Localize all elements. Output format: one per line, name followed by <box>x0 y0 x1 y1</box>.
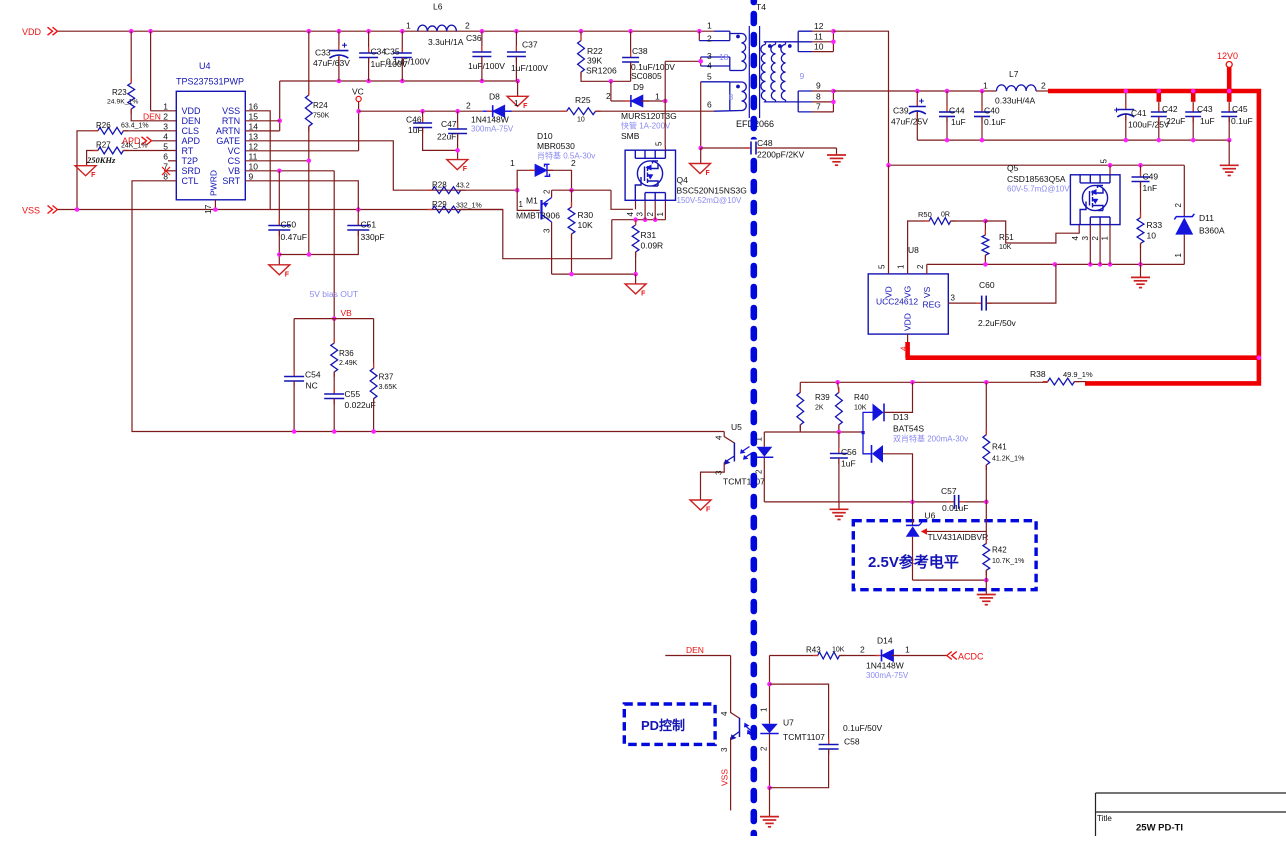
svg-text:8: 8 <box>816 92 821 102</box>
svg-text:VS: VS <box>922 286 932 298</box>
svg-text:C60: C60 <box>979 280 995 290</box>
junction 12V bus <box>1257 355 1262 360</box>
svg-text:C56: C56 <box>841 447 857 457</box>
ground earth (R33) <box>1131 276 1150 278</box>
junction C39 <box>915 89 920 94</box>
svg-text:10: 10 <box>249 162 259 172</box>
svg-text:3: 3 <box>707 51 712 61</box>
svg-text:VSS: VSS <box>222 106 240 116</box>
svg-text:4: 4 <box>163 132 168 142</box>
ground F (R31) <box>625 284 646 294</box>
wire SR source rail <box>927 263 1185 265</box>
junction VDD rail <box>129 29 134 34</box>
svg-text:C44: C44 <box>949 106 965 116</box>
junction R42 bottom <box>984 578 989 583</box>
svg-text:2: 2 <box>707 34 712 44</box>
wire Q5 pin5 stub <box>1109 165 1111 175</box>
secondary bracket pins 9/8/7 <box>798 91 812 112</box>
svg-text:UCC24612: UCC24612 <box>876 297 918 307</box>
junction Q5 pin5 <box>1108 163 1113 168</box>
svg-text:U8: U8 <box>908 245 919 255</box>
svg-text:C41: C41 <box>1131 108 1147 118</box>
wire VB rail <box>294 318 374 320</box>
svg-text:5: 5 <box>1100 159 1109 164</box>
svg-text:DEN: DEN <box>686 645 704 655</box>
svg-text:R31: R31 <box>641 230 657 240</box>
junction R41 top <box>984 380 989 385</box>
svg-text:10K: 10K <box>999 244 1012 251</box>
svg-text:VC: VC <box>352 87 364 97</box>
capacitor C36 <box>481 31 483 52</box>
wire thick 12V bus <box>1048 91 1259 383</box>
junction VDD rail <box>628 29 633 34</box>
svg-text:R30: R30 <box>578 210 594 220</box>
junction C54 <box>292 429 297 434</box>
svg-text:F: F <box>523 103 528 110</box>
svg-text:R33: R33 <box>1147 220 1163 230</box>
wire pin13 GATE <box>245 141 460 190</box>
ground F (U5) <box>690 500 711 510</box>
junction VDD rail <box>148 29 153 34</box>
capacitor C39 47uF/25V <box>916 91 918 107</box>
wire VC vertical <box>358 102 360 151</box>
photon arrows U5 <box>742 447 753 458</box>
ground earth (fb) <box>830 508 849 510</box>
svg-text:3.3uH/1A: 3.3uH/1A <box>428 37 464 47</box>
svg-text:0.01uF: 0.01uF <box>942 503 968 513</box>
capacitor C57 0.01uF <box>949 501 955 503</box>
svg-text:1nF: 1nF <box>1143 183 1158 193</box>
resistor R31 0.09R <box>635 220 637 225</box>
thick stubs to caps <box>1157 91 1162 102</box>
svg-text:2: 2 <box>543 189 552 194</box>
svg-text:C58: C58 <box>844 737 860 747</box>
junction C41 bus <box>1124 89 1129 94</box>
svg-text:R41: R41 <box>992 443 1007 452</box>
svg-text:49.9_1%: 49.9_1% <box>1063 370 1093 379</box>
svg-text:750K: 750K <box>313 113 330 120</box>
svg-text:2: 2 <box>465 21 470 31</box>
junction VD <box>886 163 891 168</box>
capacitor C34 <box>368 31 370 53</box>
capacitor C46 1uF <box>422 111 424 123</box>
svg-text:10: 10 <box>814 42 824 52</box>
svg-text:T2P: T2P <box>182 156 199 166</box>
wire gate to Q4 pin4 <box>611 190 633 209</box>
secondary bracket pins 12/11/10 <box>798 31 812 51</box>
svg-text:SRD: SRD <box>182 166 202 176</box>
resistor R43 10K <box>818 652 840 659</box>
svg-text:1: 1 <box>707 21 712 31</box>
svg-text:R37: R37 <box>379 373 394 382</box>
svg-text:0.022uF: 0.022uF <box>345 400 376 410</box>
junction VSS R26 <box>75 207 80 212</box>
optocoupler U7 TCMT1107 <box>731 656 740 719</box>
capacitor C56 1uF <box>838 432 840 454</box>
svg-text:3: 3 <box>715 470 724 475</box>
svg-text:5V bias OUT: 5V bias OUT <box>310 289 359 299</box>
wire drain node vertical <box>664 61 666 147</box>
junction VDD rail <box>514 29 519 34</box>
svg-text:1uF: 1uF <box>1200 116 1215 126</box>
wire pin11 CS <box>245 160 308 162</box>
junction Q4 pin2 <box>653 217 658 222</box>
junction CS/R24 <box>307 159 312 164</box>
svg-text:C47: C47 <box>441 119 457 129</box>
svg-text:22uF: 22uF <box>1166 116 1185 126</box>
svg-text:3.65K: 3.65K <box>379 384 398 391</box>
capacitor C33 <box>338 31 340 50</box>
junction R40/C56 <box>837 430 842 435</box>
diode D9 MURS120T3G <box>610 81 612 101</box>
junction C46/C47 gnd <box>455 148 460 153</box>
svg-text:CSD18563Q5A: CSD18563Q5A <box>1007 174 1066 184</box>
svg-text:1: 1 <box>510 158 515 168</box>
ground F (RTN rail) <box>507 96 528 106</box>
wire sense-gnd rail <box>552 273 636 275</box>
svg-text:10.7K_1%: 10.7K_1% <box>992 558 1024 565</box>
svg-text:MURS120T3G: MURS120T3G <box>621 111 677 121</box>
wire gate node <box>552 189 611 191</box>
svg-text:DEN: DEN <box>182 116 201 126</box>
svg-text:7: 7 <box>816 102 821 112</box>
svg-text:0.1uF/100V: 0.1uF/100V <box>386 57 430 67</box>
svg-text:SMB: SMB <box>621 131 640 141</box>
capacitor C44 1uF <box>946 91 948 112</box>
svg-text:100uF/25V: 100uF/25V <box>1128 120 1170 130</box>
wire VDD to pin1 <box>150 31 152 111</box>
isolation barrier dashed line <box>750 0 757 841</box>
svg-text:1: 1 <box>406 21 411 31</box>
ground F (C46/C47) <box>447 160 468 170</box>
capacitor C60 2.2uF/50v <box>948 302 981 304</box>
svg-text:C45: C45 <box>1232 104 1248 114</box>
svg-text:C36: C36 <box>466 33 482 43</box>
svg-text:1: 1 <box>905 645 910 655</box>
svg-text:4: 4 <box>715 435 724 440</box>
primary winding 1-2 (18T) <box>698 31 700 40</box>
svg-text:R42: R42 <box>992 546 1007 555</box>
junction Q4 pin3 <box>643 217 648 222</box>
IC U8 UCC24612 box <box>868 274 948 334</box>
wire Q4 pin5 stub <box>664 148 666 151</box>
svg-text:12V0: 12V0 <box>1217 51 1238 61</box>
junction T4 pins3/4 <box>698 59 703 64</box>
resistor R38 49.9_1% <box>1048 378 1075 385</box>
primary pins 3/4 bracket <box>700 57 702 66</box>
svg-text:R25: R25 <box>575 95 591 105</box>
svg-text:F: F <box>641 290 646 297</box>
wire pin16 VSS to rail <box>245 111 270 210</box>
capacitor C38 0.1uF/100V <box>630 31 632 57</box>
junction VSS SRT/C51 <box>356 207 361 212</box>
svg-text:10K: 10K <box>578 220 593 230</box>
svg-text:18: 18 <box>719 52 729 62</box>
svg-text:C38: C38 <box>632 46 648 56</box>
svg-text:R29: R29 <box>432 200 447 209</box>
svg-text:11: 11 <box>249 152 258 162</box>
svg-text:1: 1 <box>519 200 524 209</box>
junction C43 bus <box>1191 89 1196 94</box>
svg-text:330pF: 330pF <box>361 232 385 242</box>
capacitor C35 <box>401 31 403 53</box>
wire DEN <box>665 655 730 657</box>
secondary windings <box>761 45 766 101</box>
junction R51 bottom <box>983 262 988 267</box>
svg-text:C43: C43 <box>1197 104 1213 114</box>
svg-text:VC: VC <box>228 146 241 156</box>
svg-text:47uF/25V: 47uF/25V <box>891 117 928 127</box>
capacitor C58 0.1uF/50V <box>770 684 829 744</box>
svg-text:CS: CS <box>228 156 241 166</box>
transistor Q5 CSD18563Q5A <box>1070 175 1120 225</box>
junction VDD rail <box>307 29 312 34</box>
capacitor C47 22uF <box>457 111 459 129</box>
svg-text:1N4148W: 1N4148W <box>866 661 904 671</box>
svg-text:L7: L7 <box>1009 69 1019 79</box>
wire to output gnd <box>1228 140 1230 165</box>
junction 12V0 bus <box>1227 89 1232 94</box>
wire fb top rail <box>800 381 1047 383</box>
svg-text:RTN: RTN <box>222 116 240 126</box>
svg-text:C50: C50 <box>281 220 297 230</box>
svg-text:2: 2 <box>755 469 764 474</box>
wire R43 net <box>770 655 818 657</box>
svg-text:22uF: 22uF <box>437 132 456 142</box>
wire Q4 pin4 stub <box>635 200 637 209</box>
svg-text:F: F <box>706 170 711 177</box>
svg-text:0.1uF: 0.1uF <box>1231 116 1253 126</box>
title block <box>1096 793 1286 836</box>
dashed box PD control <box>624 704 715 744</box>
wire pin14 ARTN <box>245 130 279 132</box>
svg-text:2: 2 <box>1174 203 1183 208</box>
svg-text:1: 1 <box>760 707 769 712</box>
svg-text:B360A: B360A <box>1199 226 1225 236</box>
junction R31 top <box>633 217 638 222</box>
junction C42 bus <box>1157 89 1162 94</box>
svg-text:8: 8 <box>729 92 734 102</box>
wire Q4 source rail <box>612 219 666 221</box>
junction R40 top <box>835 380 840 385</box>
wire VSS rail <box>58 209 503 211</box>
wire VB vertical <box>333 171 335 319</box>
ground F (C50) <box>269 265 290 275</box>
wire pin12 VC <box>245 150 358 152</box>
svg-text:C48: C48 <box>757 138 773 148</box>
resistor R26 63.4_1% <box>77 131 98 210</box>
svg-text:R22: R22 <box>587 46 603 56</box>
svg-text:VDD: VDD <box>182 106 202 116</box>
svg-text:T4: T4 <box>756 2 766 12</box>
svg-text:VDD: VDD <box>903 313 913 331</box>
junction RTN rail <box>366 79 371 84</box>
wire M1 collector <box>551 222 553 274</box>
ground F (C48 primary) <box>690 164 711 174</box>
svg-text:双肖特基 200mA-30v: 双肖特基 200mA-30v <box>893 434 968 444</box>
wire RTN to pins 15/14 <box>279 81 281 131</box>
svg-text:C37: C37 <box>522 40 538 50</box>
svg-text:SRT: SRT <box>222 176 240 186</box>
junction VC <box>356 109 361 114</box>
svg-text:10: 10 <box>577 117 585 124</box>
phase dot primary top <box>736 35 740 39</box>
svg-text:60V-5.7mΩ@10V: 60V-5.7mΩ@10V <box>1007 185 1070 194</box>
svg-text:VSS: VSS <box>22 206 40 216</box>
wire source rail drop <box>611 220 613 259</box>
junction drain node <box>663 99 668 104</box>
capacitor C55 0.022uF <box>333 388 335 394</box>
svg-text:C49: C49 <box>1143 172 1159 182</box>
svg-text:C54: C54 <box>305 370 321 380</box>
wire M1 emitter <box>551 190 553 197</box>
junction VDD rail <box>579 29 584 34</box>
svg-text:0.47uF: 0.47uF <box>281 232 307 242</box>
svg-text:3: 3 <box>951 294 956 303</box>
svg-text:C57: C57 <box>941 486 957 496</box>
junction C47 <box>455 109 460 114</box>
wire pin15 RTN <box>245 120 279 122</box>
svg-text:PWRD: PWRD <box>209 170 219 196</box>
svg-text:1: 1 <box>514 98 519 108</box>
svg-text:3: 3 <box>543 228 552 233</box>
junction Q5 pin1 <box>1108 262 1113 267</box>
svg-text:ACDC: ACDC <box>958 652 984 662</box>
junction VDD rail <box>400 29 405 34</box>
wire Q5 pin2 <box>1099 225 1101 265</box>
inductor L7 0.33uH/4A <box>997 85 1037 91</box>
svg-text:U4: U4 <box>199 61 211 71</box>
svg-text:VB: VB <box>228 166 240 176</box>
svg-text:R36: R36 <box>339 349 354 358</box>
svg-text:M1: M1 <box>526 196 538 206</box>
junction RTN rail <box>400 79 405 84</box>
junction D10 cathode/R30 <box>569 188 574 193</box>
svg-text:0R: 0R <box>941 212 950 219</box>
junction R24/CS gnd rail <box>307 252 312 257</box>
svg-text:MMBT3906: MMBT3906 <box>516 211 560 221</box>
junction R33 bottom <box>1138 262 1143 267</box>
svg-text:D10: D10 <box>537 131 553 141</box>
svg-text:C39: C39 <box>893 106 909 116</box>
capacitor C49 1nF <box>1140 165 1142 177</box>
svg-text:C35: C35 <box>384 47 400 57</box>
capacitor C45 0.1uF <box>1228 102 1230 112</box>
svg-text:C33: C33 <box>315 48 331 58</box>
svg-text:250KHz: 250KHz <box>86 155 116 165</box>
wire output gnd rail <box>917 139 1229 141</box>
wire RTN rail <box>280 80 518 82</box>
svg-text:APD: APD <box>182 136 201 146</box>
inductor L6 3.3uH/1A <box>418 25 457 31</box>
svg-text:BAT54S: BAT54S <box>893 424 924 434</box>
svg-text:332_1%: 332_1% <box>456 203 482 210</box>
svg-text:2: 2 <box>860 645 865 655</box>
svg-text:6: 6 <box>707 100 712 110</box>
diode D8 1N4148W <box>483 110 493 112</box>
capacitor C48 plates (over barrier) <box>750 140 758 157</box>
svg-text:24.9K_1%: 24.9K_1% <box>107 99 138 106</box>
svg-text:2: 2 <box>606 91 611 101</box>
ground earth (R42) <box>977 594 996 596</box>
junction VDD rail <box>480 29 485 34</box>
LED U7 <box>769 684 771 724</box>
svg-text:U5: U5 <box>731 422 742 432</box>
transistor M1 MMBT3906 <box>517 190 540 210</box>
svg-text:RT: RT <box>182 146 194 156</box>
svg-text:2.49K: 2.49K <box>339 360 358 367</box>
junction pin8 <box>831 100 836 105</box>
svg-text:R43: R43 <box>806 646 821 655</box>
junction C46 <box>420 109 425 114</box>
junction C60 return <box>1053 262 1058 267</box>
svg-text:9: 9 <box>800 71 805 81</box>
junction RTN rail <box>337 79 342 84</box>
svg-text:R23: R23 <box>112 88 127 97</box>
svg-text:1: 1 <box>163 102 168 112</box>
svg-text:VDD: VDD <box>22 27 42 37</box>
IC U4 TPS237531PWP <box>176 91 245 200</box>
junction pin12 <box>831 29 836 34</box>
svg-text:3: 3 <box>163 122 168 132</box>
svg-text:CTL: CTL <box>182 176 199 186</box>
resistor R41 41.2K_1% <box>985 382 987 434</box>
svg-text:PD控制: PD控制 <box>641 718 685 733</box>
junction VDD rail <box>697 29 702 34</box>
svg-text:VB: VB <box>341 308 353 318</box>
svg-text:2: 2 <box>1041 81 1046 91</box>
svg-text:15: 15 <box>249 112 259 122</box>
wire R25 to T4 pin6 <box>596 110 715 112</box>
phase dots secondary <box>768 44 772 48</box>
wire fb gnd rail <box>764 501 954 503</box>
svg-text:1: 1 <box>897 264 906 269</box>
svg-text:16: 16 <box>249 102 259 112</box>
wire gate drive to Q5 pin4 <box>985 221 1079 243</box>
svg-text:39K: 39K <box>587 56 602 66</box>
svg-text:12: 12 <box>249 142 259 152</box>
wire T4 pin5 to C48 <box>700 82 702 148</box>
wire secondary output + <box>833 90 996 92</box>
wire pin8 CTL <box>132 181 724 432</box>
svg-text:47uF/63V: 47uF/63V <box>313 58 350 68</box>
svg-text:10K: 10K <box>854 405 867 412</box>
svg-text:0.33uH/4A: 0.33uH/4A <box>995 96 1035 106</box>
photon arrows U7 <box>746 726 756 739</box>
pin 7 stub SRD with no-connect X <box>164 170 176 172</box>
junction VB/C50 <box>277 169 282 174</box>
svg-text:25W PD-TI: 25W PD-TI <box>1136 823 1183 834</box>
svg-text:SR1206: SR1206 <box>586 66 617 76</box>
wire secondary 12/11 to SR drain <box>833 31 888 165</box>
pin 17 stub <box>214 200 216 210</box>
junction C50 gnd <box>277 252 282 257</box>
svg-text:C46: C46 <box>406 115 422 125</box>
junction pin9 <box>831 89 836 94</box>
svg-text:1uF/100V: 1uF/100V <box>511 63 548 73</box>
svg-text:6: 6 <box>163 152 168 162</box>
svg-text:C40: C40 <box>984 106 1000 116</box>
wire VDD thick red <box>907 334 909 343</box>
svg-text:1: 1 <box>1174 253 1183 258</box>
resistor R24 750K <box>308 31 310 95</box>
svg-text:2: 2 <box>760 746 769 751</box>
svg-text:0.1uF/50V: 0.1uF/50V <box>843 723 883 733</box>
dashed box 2.5V reference <box>853 521 1036 590</box>
svg-text:0.09R: 0.09R <box>641 241 664 251</box>
capacitor C48 2200pF/2KV <box>698 146 703 151</box>
junction R37 <box>371 429 376 434</box>
